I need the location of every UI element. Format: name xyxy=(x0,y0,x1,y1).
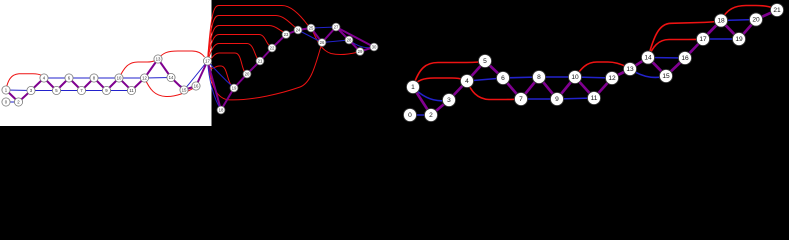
red edge 12-16 (graph A) xyxy=(145,78,194,97)
purple edge 20-21 (graph B) xyxy=(756,10,777,20)
blue edge 14-16 (graph B) xyxy=(648,57,685,60)
purple edge 10-11 (graph B) xyxy=(575,77,594,98)
node 14 (graph B) xyxy=(641,51,654,64)
purple edge 18-19 (graph A) xyxy=(221,88,234,110)
purple edge 12-13 (graph B) xyxy=(612,69,630,78)
svg-text:24: 24 xyxy=(296,28,301,33)
node 30 (graph A) xyxy=(370,43,378,51)
node 4 (graph B) xyxy=(460,74,473,87)
blue edge 15-17 (graph A) xyxy=(184,61,208,90)
node 19 (graph A) xyxy=(230,84,238,92)
svg-text:12: 12 xyxy=(608,75,616,82)
purple edge 3-4 (graph B) xyxy=(449,81,467,100)
svg-text:16: 16 xyxy=(194,84,199,89)
purple edge 24-25 (graph A) xyxy=(298,28,311,30)
node 19 (graph B) xyxy=(732,32,745,45)
svg-text:10: 10 xyxy=(117,76,122,81)
svg-text:21: 21 xyxy=(773,7,781,14)
node 21 (graph B) xyxy=(770,3,783,16)
purple edge 5-6 (graph A) xyxy=(57,78,70,91)
node 1 (graph B) xyxy=(406,80,419,93)
svg-text:23: 23 xyxy=(284,32,289,37)
purple edge 16-17 (graph A) xyxy=(196,61,208,86)
red edge 14-18 (graph B) xyxy=(648,22,716,58)
node 25 (graph A) xyxy=(307,24,315,32)
purple edge 6-7 (graph A) xyxy=(69,78,82,91)
node 8 (graph B) xyxy=(532,70,545,83)
purple edge 11-12 (graph B) xyxy=(594,78,612,98)
svg-text:1: 1 xyxy=(411,84,415,91)
red edge 14-17 (graph B) xyxy=(648,39,698,57)
blue edge 15-17 (graph B) xyxy=(666,39,703,76)
blue edge 24-26 (graph A) xyxy=(298,30,322,43)
purple edge 12-13 (graph A) xyxy=(145,59,159,78)
blue edge 9-11 (graph A) xyxy=(107,90,132,92)
red arc 17-25 (graph A) xyxy=(208,6,309,62)
svg-text:18: 18 xyxy=(717,18,725,25)
blue edge 0-2 (graph A) xyxy=(6,101,19,103)
svg-text:7: 7 xyxy=(519,96,523,103)
node 18 (graph B) xyxy=(714,14,727,27)
purple edge 8-9 (graph A) xyxy=(94,78,107,91)
svg-text:28: 28 xyxy=(347,38,352,43)
purple edge 17-18 (graph B) xyxy=(703,21,721,40)
red arc 17-24 (graph A) xyxy=(208,16,296,62)
node 15 (graph A) xyxy=(180,86,188,94)
node 10 (graph A) xyxy=(115,74,123,82)
blue edge 7-9 (graph A) xyxy=(82,90,107,92)
svg-text:6: 6 xyxy=(501,75,505,82)
node 1 (graph A) xyxy=(2,86,10,94)
svg-text:13: 13 xyxy=(626,66,634,73)
purple edge 26-27 (graph A) xyxy=(322,27,336,43)
purple edge 18-19 (graph B) xyxy=(721,21,739,40)
purple edge 2-3 (graph B) xyxy=(431,100,449,115)
node 24 (graph A) xyxy=(294,26,302,34)
node 11 (graph A) xyxy=(127,86,135,94)
blue edge 17-19 (graph B) xyxy=(703,38,739,40)
node 26 (graph A) xyxy=(318,39,326,47)
red edge 25-29 (graph A) xyxy=(311,28,357,55)
blue edge 26-28 (graph A) xyxy=(322,40,349,43)
purple edge 28-29 (graph A) xyxy=(349,40,360,52)
node 16 (graph A) xyxy=(192,82,200,90)
node 8 (graph A) xyxy=(90,74,98,82)
white panel behind left graph xyxy=(0,0,212,126)
purple edge 19-20 (graph B) xyxy=(739,20,756,40)
node 17 (graph A) xyxy=(203,57,211,65)
node 3 (graph A) xyxy=(27,86,35,94)
blue edge 8-10 (graph B) xyxy=(539,76,575,78)
red edge 18-21 (graph B) xyxy=(721,6,775,21)
purple edge 16-17 (graph B) xyxy=(685,39,703,58)
node 21 (graph A) xyxy=(256,57,264,65)
red edge 13-17 (graph A) xyxy=(158,51,205,59)
purple edge 2-3 (graph A) xyxy=(19,91,32,103)
purple edge 4-5 (graph A) xyxy=(44,78,57,91)
purple edge 20-21 (graph A) xyxy=(247,61,260,74)
svg-text:19: 19 xyxy=(735,36,743,43)
svg-text:19: 19 xyxy=(232,86,237,91)
node 23 (graph A) xyxy=(282,31,290,39)
purple edge 11-12 (graph A) xyxy=(132,78,145,91)
purple edge 19-20 (graph A) xyxy=(234,74,247,88)
svg-text:9: 9 xyxy=(555,96,559,103)
red edge 17-26 long valley arc (graph A) xyxy=(208,47,322,100)
node 29 (graph A) xyxy=(356,48,364,56)
red arc 17-19 (graph A) xyxy=(208,61,232,85)
purple edge 23-24 (graph A) xyxy=(286,30,298,35)
svg-text:2: 2 xyxy=(429,112,433,119)
blue edge 5-7 (graph A) xyxy=(57,90,82,92)
svg-text:20: 20 xyxy=(245,72,250,77)
purple edge 1-2 (graph B) xyxy=(413,87,431,115)
blue edge 9-11 (graph B) xyxy=(557,98,594,99)
svg-text:29: 29 xyxy=(358,49,363,54)
node 15 (graph B) xyxy=(659,69,672,82)
purple edge 13-14 (graph A) xyxy=(158,59,171,78)
node 12 (graph B) xyxy=(605,71,618,84)
purple edge 15-16 (graph A) xyxy=(184,86,196,90)
purple edge 29-30 (graph A) xyxy=(360,47,374,52)
svg-text:13: 13 xyxy=(156,57,161,62)
node 12 (graph A) xyxy=(140,74,148,82)
purple edge 6-7 (graph B) xyxy=(503,78,521,99)
node 13 (graph B) xyxy=(623,62,636,75)
svg-text:11: 11 xyxy=(129,88,134,93)
node 2 (graph A) xyxy=(14,98,22,106)
red edge 1-4 (graph B) xyxy=(413,78,463,87)
purple edge 8-9 (graph B) xyxy=(539,77,557,99)
blue edge 14-16 (graph A) xyxy=(171,78,196,89)
purple edge 22-23 (graph A) xyxy=(272,35,286,49)
svg-text:22: 22 xyxy=(270,46,275,51)
blue edge 1-3 (graph A) xyxy=(6,89,31,92)
blue edge 0-2 (graph B) xyxy=(410,114,431,116)
blue edge 12-14 (graph A) xyxy=(145,77,172,80)
blue edge 13-15 (graph B) xyxy=(630,69,666,77)
red arc 17-22 (graph A) xyxy=(208,35,270,62)
blue edge 18-20 (graph B) xyxy=(721,20,756,21)
purple edge 27-28 (graph A) xyxy=(336,27,349,40)
svg-text:5: 5 xyxy=(483,58,487,65)
purple edge 3-4 (graph A) xyxy=(31,78,44,91)
red edge 10-13 (graph B) xyxy=(575,62,627,77)
node 6 (graph B) xyxy=(496,71,509,84)
svg-text:3: 3 xyxy=(447,97,451,104)
svg-text:0: 0 xyxy=(408,112,412,119)
blue edge 4-6 (graph A) xyxy=(44,77,69,79)
svg-text:12: 12 xyxy=(142,76,147,81)
svg-text:30: 30 xyxy=(372,45,377,50)
svg-text:14: 14 xyxy=(169,75,174,80)
svg-text:25: 25 xyxy=(309,26,314,31)
red arc 17-23 (graph A) xyxy=(208,26,284,62)
blue edge 4-6 (graph B) xyxy=(467,78,503,81)
node 14 (graph A) xyxy=(167,73,175,81)
node 7 (graph B) xyxy=(514,92,527,105)
node 7 (graph A) xyxy=(77,86,85,94)
svg-text:15: 15 xyxy=(182,88,187,93)
node 9 (graph A) xyxy=(102,86,110,94)
purple edge 1-2 (graph A) xyxy=(6,90,19,102)
purple edge 4-5 (graph B) xyxy=(467,61,485,81)
red edge 4-7 (graph B) xyxy=(467,81,515,100)
purple edge 14-15 (graph A) xyxy=(171,78,184,91)
node 0 (graph A) xyxy=(2,98,10,106)
blue edge 7-9 (graph B) xyxy=(521,98,557,100)
node 5 (graph B) xyxy=(478,54,491,67)
red arc 17-20 (graph A) xyxy=(208,53,245,71)
purple edge 14-15 (graph B) xyxy=(648,58,666,77)
purple edge 13-14 (graph B) xyxy=(630,58,648,70)
node 9 (graph B) xyxy=(550,92,563,105)
node 11 (graph B) xyxy=(587,91,600,104)
purple edge 9-10 (graph A) xyxy=(107,78,120,91)
blue edge 1-3 (graph B) xyxy=(413,87,449,101)
blue edge 17-18 (graph A) xyxy=(208,61,222,110)
svg-text:15: 15 xyxy=(662,73,670,80)
node 0 (graph B) xyxy=(403,108,416,121)
node 27 (graph A) xyxy=(332,23,340,31)
red edge 10-13 (graph A) xyxy=(119,61,156,79)
purple edge 7-8 (graph B) xyxy=(521,77,539,99)
blue edge 17-19 (graph A) xyxy=(208,61,235,88)
red edge 1-4 (graph A) xyxy=(6,74,42,90)
purple edge 5-6 (graph B) xyxy=(485,61,503,78)
node 4 (graph A) xyxy=(40,74,48,82)
purple edge 21-22 (graph A) xyxy=(260,48,272,61)
svg-text:11: 11 xyxy=(591,95,598,102)
red edge 1-5 (graph B) xyxy=(413,62,479,87)
blue edge 28-30 (graph A) xyxy=(349,40,374,48)
node 13 (graph A) xyxy=(154,55,162,63)
svg-text:20: 20 xyxy=(752,17,760,24)
blue edge 10-12 (graph B) xyxy=(575,77,612,78)
purple edge 25-26 (graph A) xyxy=(311,28,322,43)
blue edge 3-5 (graph A) xyxy=(31,90,57,92)
svg-text:4: 4 xyxy=(465,78,469,85)
blue edge 6-8 (graph B) xyxy=(503,77,539,78)
svg-text:8: 8 xyxy=(537,74,541,81)
node 20 (graph B) xyxy=(749,13,762,26)
blue edge 6-8 (graph A) xyxy=(69,77,94,79)
svg-text:10: 10 xyxy=(571,74,579,81)
node 5 (graph A) xyxy=(52,86,60,94)
node 20 (graph A) xyxy=(243,70,251,78)
blue edge 10-12 (graph A) xyxy=(119,77,145,79)
purple edge 27-30 (graph A) xyxy=(336,27,374,47)
blue edge 8-10 (graph A) xyxy=(94,77,119,79)
node 2 (graph B) xyxy=(424,108,437,121)
svg-text:27: 27 xyxy=(334,25,339,30)
svg-text:21: 21 xyxy=(258,59,263,64)
svg-text:16: 16 xyxy=(681,55,689,62)
node 16 (graph B) xyxy=(678,51,691,64)
svg-text:17: 17 xyxy=(205,59,210,64)
svg-text:17: 17 xyxy=(699,36,707,43)
svg-text:18: 18 xyxy=(219,108,224,113)
node 28 (graph A) xyxy=(345,36,353,44)
node 6 (graph A) xyxy=(65,74,73,82)
svg-text:14: 14 xyxy=(644,55,652,62)
black background xyxy=(0,0,789,126)
svg-text:26: 26 xyxy=(320,40,325,45)
purple edge 9-10 (graph B) xyxy=(557,77,575,99)
blue edge 25-27 (graph A) xyxy=(311,27,336,28)
node 18 (graph A) xyxy=(217,106,225,114)
node 22 (graph A) xyxy=(268,44,276,52)
node 10 (graph B) xyxy=(568,70,581,83)
node 3 (graph B) xyxy=(442,93,455,106)
purple edge 7-8 (graph A) xyxy=(82,78,95,91)
node 17 (graph B) xyxy=(696,32,709,45)
purple edge 10-11 (graph A) xyxy=(119,78,132,91)
purple edge 15-16 (graph B) xyxy=(666,58,685,76)
purple edge 17-18 (graph A) xyxy=(208,61,222,110)
red arc 17-21 (graph A) xyxy=(208,44,258,62)
